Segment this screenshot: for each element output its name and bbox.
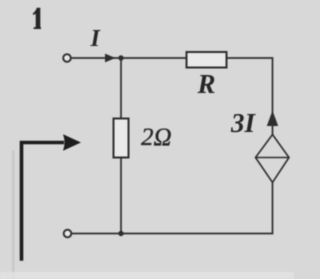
page edge shading <box>12 150 15 279</box>
wire: middle branch below 2-ohm resistor <box>120 158 122 234</box>
svg-text:2Ω: 2Ω <box>141 124 172 151</box>
node B (bottom junction) <box>118 231 123 236</box>
dependent current source 3I (diamond) <box>256 135 290 183</box>
wire: top, terminal to node A <box>72 57 122 59</box>
svg-text:R: R <box>197 69 216 99</box>
wire: middle branch above 2-ohm resistor <box>120 58 122 119</box>
input arrow (thick, L-shaped pointer) <box>22 134 82 260</box>
wire: bottom, node B to terminal <box>72 233 121 235</box>
resistor R <box>187 52 227 68</box>
node A (top junction) <box>118 55 123 60</box>
current arrow I on top wire <box>105 54 116 63</box>
terminal top-left <box>63 54 71 62</box>
wire: right branch below source to bottom-right corner <box>121 183 273 234</box>
svg-text:3I: 3I <box>230 108 257 138</box>
svg-text:I: I <box>90 26 102 52</box>
source arrow 3I (points up) <box>267 111 278 127</box>
problem number 1 <box>33 8 41 29</box>
resistor 2-ohm <box>114 119 129 158</box>
wire: top, node A to resistor R <box>121 57 187 59</box>
terminal bottom-left <box>64 230 72 238</box>
wire: top, resistor R to top-right corner and down right branch <box>227 58 273 135</box>
